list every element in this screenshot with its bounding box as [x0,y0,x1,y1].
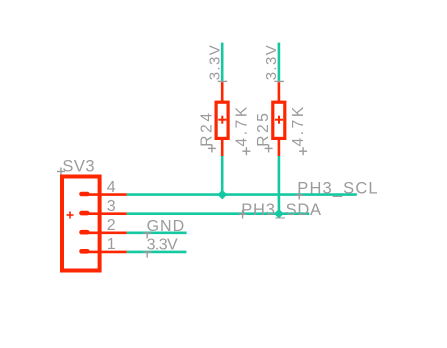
junction on SCL at R24 [218,190,228,200]
pin 2 [80,231,127,234]
svg-text:2: 2 [107,217,116,234]
svg-text:4.7K: 4.7K [234,104,251,146]
svg-text:4.7K: 4.7K [290,104,307,146]
svg-text:GND: GND [147,218,186,235]
label 4.7K of R24 origin cross [242,147,250,155]
svg-text:R25: R25 [255,110,272,146]
net label 3.3V origin cross [143,251,152,258]
label SV3 origin cross [57,168,65,176]
wire 3.3V supply to R25 [278,43,281,81]
svg-text:4: 4 [107,179,116,196]
svg-text:PH3_SCL: PH3_SCL [297,180,378,198]
connector SV3 origin cross [67,212,74,219]
pin 4 [80,193,127,196]
supply pin cross R24 top [218,77,228,86]
pin 1 [80,250,127,253]
net label GND origin cross [143,232,152,239]
wire R24 bottom to SCL net [221,156,224,195]
wire GND from pin 2 [127,232,187,235]
label 4.7K of R25 origin cross [299,147,307,155]
svg-text:SV3: SV3 [62,158,95,176]
wire 3.3V from pin 1 [127,251,187,254]
connector SV3 body [62,177,100,271]
resistor R24 [216,82,228,156]
junction on SDA at R25 [274,209,284,219]
wire PH3_SCL from pin 4 [127,193,357,196]
net label PH3_SCL origin cross [295,191,304,200]
svg-text:PH3_SDA: PH3_SDA [241,201,321,219]
svg-text:3.3V: 3.3V [263,44,280,80]
supply pin cross R25 top [274,77,284,86]
label R24 origin cross [208,144,216,152]
svg-text:1: 1 [107,236,116,253]
svg-text:3.3V: 3.3V [206,44,223,80]
label R25 origin cross [265,144,273,152]
pin 3 [80,212,127,215]
svg-text:3.3V: 3.3V [147,237,178,254]
svg-text:R24: R24 [199,110,216,146]
wire PH3_SDA from pin 3 [127,212,309,215]
net label PH3_SDA origin cross [238,210,247,219]
wire R25 bottom to SDA net [278,156,281,214]
svg-text:3: 3 [107,198,116,215]
resistor R25 [273,82,285,156]
wire 3.3V supply to R24 [221,43,224,81]
